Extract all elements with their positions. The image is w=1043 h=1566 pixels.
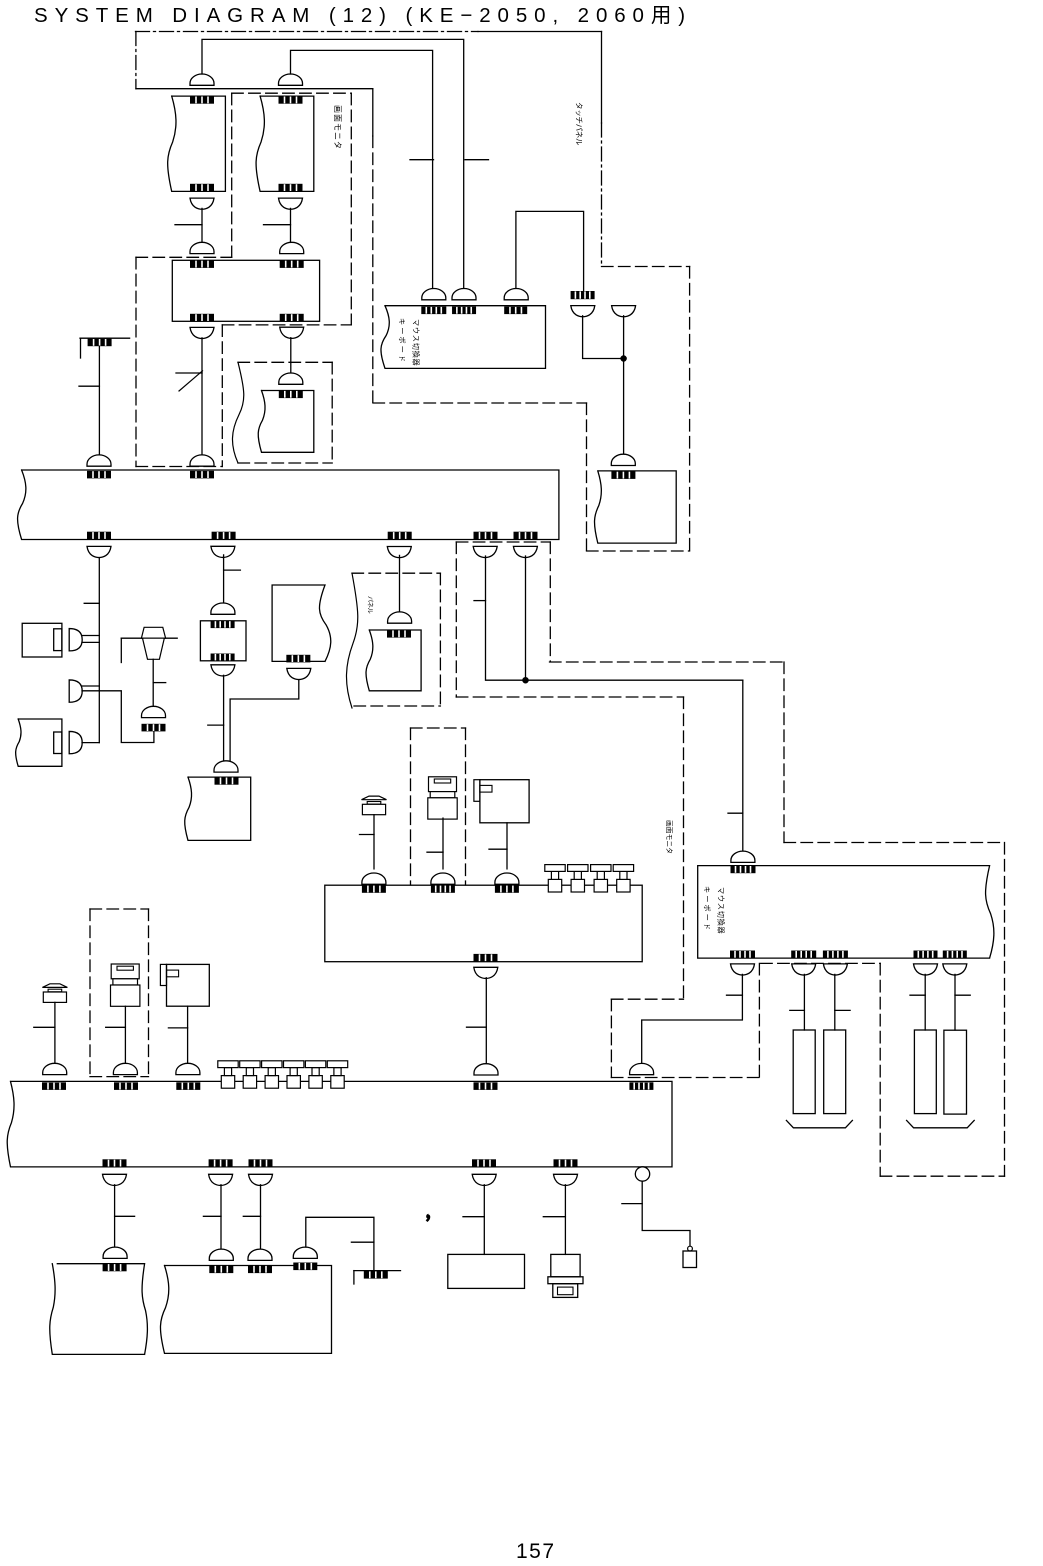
wire F3 [260,1185,262,1249]
svg-text:ボ: ボ [398,336,407,343]
middle board conn h3 [495,885,519,893]
cable tick D [474,600,486,602]
dashed box pen top [411,727,466,729]
unit2 connector H2 [791,951,816,959]
middle board conn h1 [362,885,386,893]
PWB2 conn bottom F2 [209,1159,233,1167]
svg-text:器: 器 [412,359,421,366]
connector on box2 bottom [279,184,303,192]
keyboard mouse switch box [381,306,546,369]
wire H1 monitor2 [642,974,743,1064]
main board connector bottom D2 [474,532,498,540]
receptacle below small box [211,665,235,676]
wire F4 [483,1185,485,1255]
jack box 1 [167,964,210,1006]
svg-text:ー: ー [703,895,712,902]
cable tick [243,1215,260,1217]
receptacle below panel box [287,668,311,679]
cable tick [176,372,202,374]
connector on box2 top [279,96,303,104]
wire B5c to edge conn [306,1217,374,1270]
bracket under pair2 [907,1120,975,1127]
receptacle below box2 [278,198,302,209]
group dashed box 3 wavy left edge [232,362,243,463]
jack box 1 tab [160,964,166,985]
plug hs1 [43,1063,67,1074]
rca plug 1 [545,865,565,892]
kb switch connector 1 [421,307,446,315]
plug h2 [431,873,455,884]
main control PWB [18,470,559,540]
group dashed box 3 right edge [331,362,333,463]
svg-text:SYSTEM DIAGRAM (12) (KE−2050,: SYSTEM DIAGRAM (12) (KE−2050, 2060用) [34,4,692,27]
wire H3 [834,974,836,1030]
connector B top-right [280,260,304,268]
wire jack2 [506,823,508,869]
display unit boundary top right solid [478,31,602,33]
PWB2 conn top 2 [114,1082,138,1090]
PWB2 conn bottom F3 [249,1159,273,1167]
plug above box2 [279,74,303,85]
main board connector bottom B2 [212,532,236,540]
wire mic [152,659,154,707]
touch panel boundary left vertical [586,403,588,551]
keyboard pair1 dashed left [758,963,760,1077]
receptacle below main A2 [87,546,111,557]
wire mic branch [82,691,154,743]
svg-text:ド: ド [398,355,407,362]
jack box 1 slot [167,970,179,977]
svg-text:ウ: ウ [717,895,726,902]
cable tick [622,1203,642,1205]
cable tick [467,1026,487,1028]
wire H4 [924,974,926,1030]
label mouse switch 2 [717,887,726,934]
B4 connector [103,1264,127,1272]
edge connector header [88,339,112,347]
wire edge connector to main board [98,346,100,455]
power supply box [448,1254,525,1288]
unit2 connector H3 [823,951,848,959]
display unit boundary left dash-dot [135,32,137,89]
dashed box pen [410,728,412,885]
panel inner connector [387,630,411,638]
speaker box 2 [16,719,62,766]
plug monitor2 [630,1063,654,1074]
cable tick [203,1215,221,1217]
wire F5 [564,1185,566,1255]
monitor cable box 2 [256,96,314,191]
monitor dashed box right edge [350,93,352,325]
wire W1 [202,39,464,288]
cable tick [728,812,743,814]
plug above main board B [190,455,214,466]
plug above control box left [190,242,214,253]
label keyboard [398,318,407,362]
touch panel boundary horizontal [602,266,690,268]
cable tick [84,602,99,604]
plug above control box right [280,242,304,253]
unit2 connector H1 [730,951,755,959]
wire touch drop [623,316,625,454]
small box connector top [211,621,235,628]
edge connector 2 shelf [354,1270,401,1272]
screw circle [688,1246,693,1251]
receptacle E [513,546,537,557]
cable tick [264,224,291,226]
svg-text:マ: マ [412,319,421,326]
wire main audio [98,556,100,743]
cable tick W2 [410,159,434,161]
keyboard pair2 dashed left [879,963,881,1176]
plug above box1 [190,74,214,85]
bottom PWB2 [7,1081,672,1167]
inlet component lower [553,1284,578,1298]
junction dot [621,356,626,361]
receptacle H2 [792,964,816,975]
dashed box D-E top [456,541,550,543]
touch panel boundary right vertical [689,267,691,552]
comma speck [427,1215,430,1221]
enclosure seg y697 [456,696,683,698]
plug j1 [176,1063,200,1074]
enclosure seg x784 [783,662,785,843]
jack box 2 [480,780,529,823]
side plug 1 [69,629,82,651]
rca plug row 1 [218,1061,238,1088]
plug h3 [495,873,519,884]
cable tick [168,1027,187,1029]
receptacle D [473,546,497,557]
plug above main board A [87,455,111,466]
dash-dot box hand unit left [89,909,91,1077]
cable tick [955,994,970,996]
svg-text:キ: キ [703,886,712,893]
B3 connector [215,777,239,785]
wire B2 upper [223,555,225,603]
enclosure seg x1004 [1004,843,1006,1177]
dash-dot box hand unit bottom [90,1076,149,1078]
svg-text:画: 画 [333,105,342,113]
cable box B5 [160,1266,331,1354]
connector on box1 top [190,96,214,104]
dashed box D-E left [455,542,457,697]
inlet component flange [548,1277,583,1284]
plug above sub box [279,373,303,384]
svg-text:タ: タ [333,141,342,149]
panel box connector [286,655,310,663]
edge connector 2 header [364,1271,388,1279]
rca plug row 5 [305,1061,325,1088]
wire mount hole [642,1181,690,1246]
svg-text:ー: ー [398,327,407,334]
touch cable receptacle 1 [571,306,595,317]
display unit boundary shelf line [136,88,373,90]
unit2 connector H4 [914,951,938,959]
receptacle H5 [943,964,967,975]
PWB2 conn top 1 [42,1082,66,1090]
PWB2 conn top 3 [176,1082,200,1090]
side plug 3 [69,731,82,753]
cable tick [208,724,224,726]
connector B bottom-right [280,314,304,322]
small relay box [200,621,246,661]
svg-text:157: 157 [516,1540,556,1563]
svg-text:ル: ル [575,138,584,146]
plug above small box [211,603,235,614]
enclosure seg y842 [784,842,1005,844]
svg-text:面: 面 [333,114,342,122]
B5 connector a [209,1266,233,1274]
group dashed box 2 right edge [221,325,223,467]
main board connector top A [87,471,111,479]
main board connector bottom E2 [514,532,538,540]
receptacle F1 [103,1174,127,1185]
small box connector bottom [211,654,235,661]
edge connector shelf [80,337,130,339]
wire jack1 [187,1006,189,1064]
cable tick [910,994,925,996]
svg-text:ス: ス [717,903,726,910]
plug B5c [293,1247,317,1258]
cable tick [463,1216,484,1218]
label mouse switch [412,319,421,366]
wire hb [485,978,487,1065]
receptacle F3 [248,1174,272,1185]
receptacle below main B2 [211,546,235,557]
keyboard rect C [914,1030,936,1114]
receptacle F2 [209,1174,233,1185]
touch cable receptacle 2 [612,306,636,317]
stub wire 3 [82,742,99,744]
cable tick [360,834,375,836]
rca plug 2 [568,865,588,892]
touch panel boundary bottom [587,550,690,552]
svg-text:マ: マ [717,887,726,894]
receptacle below box1 [190,198,214,209]
svg-text:ル: ル [366,608,373,614]
connector B bottom-left [190,314,214,322]
wire box2 to control box [290,208,292,242]
dash-dot box hand unit top [90,908,149,910]
plug B5a [209,1249,233,1260]
svg-text:キ: キ [398,318,407,325]
receptacle H1 [731,964,755,975]
display unit boundary top dash-dot [136,31,479,33]
touch panel boundary upper horizontal [373,402,587,404]
enclosure seg y662 [550,661,785,663]
monitor dashed box left edge [231,93,233,257]
cable tick [175,224,202,226]
wire B-right to sub box [290,338,292,374]
edge connector bracket [80,338,82,358]
PWB2 conn bottom F1 [103,1159,127,1167]
microphone body [143,638,165,659]
middle board conn h2 [431,885,455,893]
B5 connector c [293,1263,317,1271]
keyboard rect B [824,1030,846,1114]
wire B2 lower [223,675,225,762]
main board connector top B [190,471,214,479]
svg-text:器: 器 [717,927,726,934]
cable tick [489,848,507,850]
jack box 2 slot [480,785,492,792]
cable tick [727,994,743,996]
receptacle below main C2 [387,547,411,558]
svg-text:ー: ー [398,346,407,353]
wire C2 [399,555,401,612]
screw block [683,1251,697,1268]
mic shelf line [121,637,177,639]
rca plug row 6 [327,1061,347,1088]
display unit boundary right vertical solid [601,32,603,124]
boundary vertical at x373 solid part [372,89,374,136]
panel connector box [272,585,331,661]
svg-text:換: 換 [412,351,421,358]
plug above kb conn3 [504,289,528,300]
mic shelf bracket [120,638,122,662]
group dashed box 3 top edge [238,361,332,363]
receptacle below B left [190,327,214,338]
stack plug 2 [428,777,457,819]
wire hand switch 1 [54,1002,56,1064]
cable tick [543,1216,565,1218]
panel dashed top [352,572,440,574]
svg-text:ボ: ボ [703,904,712,911]
wire stack1 [124,1006,126,1064]
wire touch cable [583,316,624,359]
wire H5 [954,974,956,1030]
unit2 connector top [731,866,756,874]
cable tick [224,569,241,571]
label tatchi-paneru [575,102,584,146]
monitor dashed box bottom edge [222,324,351,326]
unit2 connector H5 [943,951,967,959]
middle board conn hb [474,954,498,962]
receptacle H4 [914,964,938,975]
group dashed box 3 bottom edge [238,462,332,464]
panel inner box [366,630,421,691]
rca plug row 3 [262,1061,282,1088]
stub wire 1b [82,641,99,643]
kb switch connector 2 [452,307,476,315]
svg-text:ニ: ニ [333,132,342,140]
stub wire 1a [82,635,99,637]
PWB2 conn bottom F4 [472,1159,496,1167]
panel dashed bottom [354,705,440,707]
wire box1 to control box [201,208,203,242]
wire D [486,556,743,680]
cable tick W1 [465,159,489,161]
cable tick [351,1241,374,1243]
plug above touch box [611,454,635,465]
svg-text:モ: モ [333,123,342,131]
touch cable header [571,291,595,299]
svg-text:ウ: ウ [412,327,421,334]
edge connector 2 bracket [353,1271,355,1284]
cable tick [115,1215,135,1217]
wire W3 [516,211,584,291]
plug above PWB2 mid [474,1064,498,1075]
touch panel box connector [611,471,635,479]
label keyboard 2 [703,886,712,930]
cable box B3 [185,777,251,840]
svg-text:換: 換 [717,919,726,926]
cable tick [79,385,99,387]
cable tick [835,1009,850,1011]
keyboard rect A [793,1030,815,1114]
enclosure seg y999 [611,998,683,1000]
wire F1 [114,1185,116,1247]
dash-dot box hand unit right [148,909,150,1077]
svg-text:切: 切 [717,911,726,918]
PWB2 conn monitor2 [629,1082,653,1090]
rca plug row 4 [284,1061,304,1088]
label gamen-monitor 2 [665,820,674,854]
enclosure seg y1077 [611,1077,759,1079]
stack plug 1 [111,964,140,1006]
dashed box D-E right [549,542,551,662]
cable tick [106,1026,126,1028]
receptacle below B right [280,327,304,338]
PWB2 conn bottom F5 [554,1159,578,1167]
monitor cable box 1 [168,96,226,191]
mount hole circle [635,1167,649,1181]
hand switch 2 [362,796,387,815]
rca plug row 2 [240,1061,260,1088]
label gamen-monitor [333,105,342,149]
connector B top-left [190,260,214,268]
stub wire 2a [82,685,99,687]
svg-text:ス: ス [412,335,421,342]
PWB2 conn top mid [474,1082,498,1090]
keyboard pair1 dashed top [761,962,881,964]
plug h1 [362,873,386,884]
display unit boundary right vertical dash-dot [601,123,603,267]
keyboard mouse switch unit 2 [698,866,994,959]
keyboard rect D [944,1030,967,1114]
cable tick [34,1026,55,1028]
group dashed box 2 bottom edge [136,466,222,468]
hand switch 1 [42,984,67,1003]
svg-text:切: 切 [412,343,421,350]
cable tick [153,682,166,684]
inlet component inner [558,1287,574,1295]
wire F2 [220,1185,222,1249]
rca plug 4 [613,865,633,892]
svg-text:ド: ド [703,923,712,930]
touch panel box [595,471,677,543]
svg-text:ー: ー [703,914,712,921]
wire to unit2 [742,680,744,851]
main board connector bottom A2 [87,532,111,540]
plug above unit2 [731,851,755,862]
wire B-left to main board [201,338,203,455]
monitor dashed box top edge [232,92,352,94]
cable tick [427,851,443,853]
junction dot DE [523,678,528,683]
plug above B3 [214,761,238,772]
cable box B4 [50,1264,148,1355]
plug above keyboard conn2 [452,289,476,300]
receptacle F4 [472,1174,496,1185]
plug B5b [248,1249,272,1260]
jack box 2 tab [474,780,480,802]
middle PWB [325,885,642,962]
boundary vertical at x373 dashed part [372,136,374,403]
mic header [142,724,166,732]
enclosure seg x683 [683,697,685,999]
